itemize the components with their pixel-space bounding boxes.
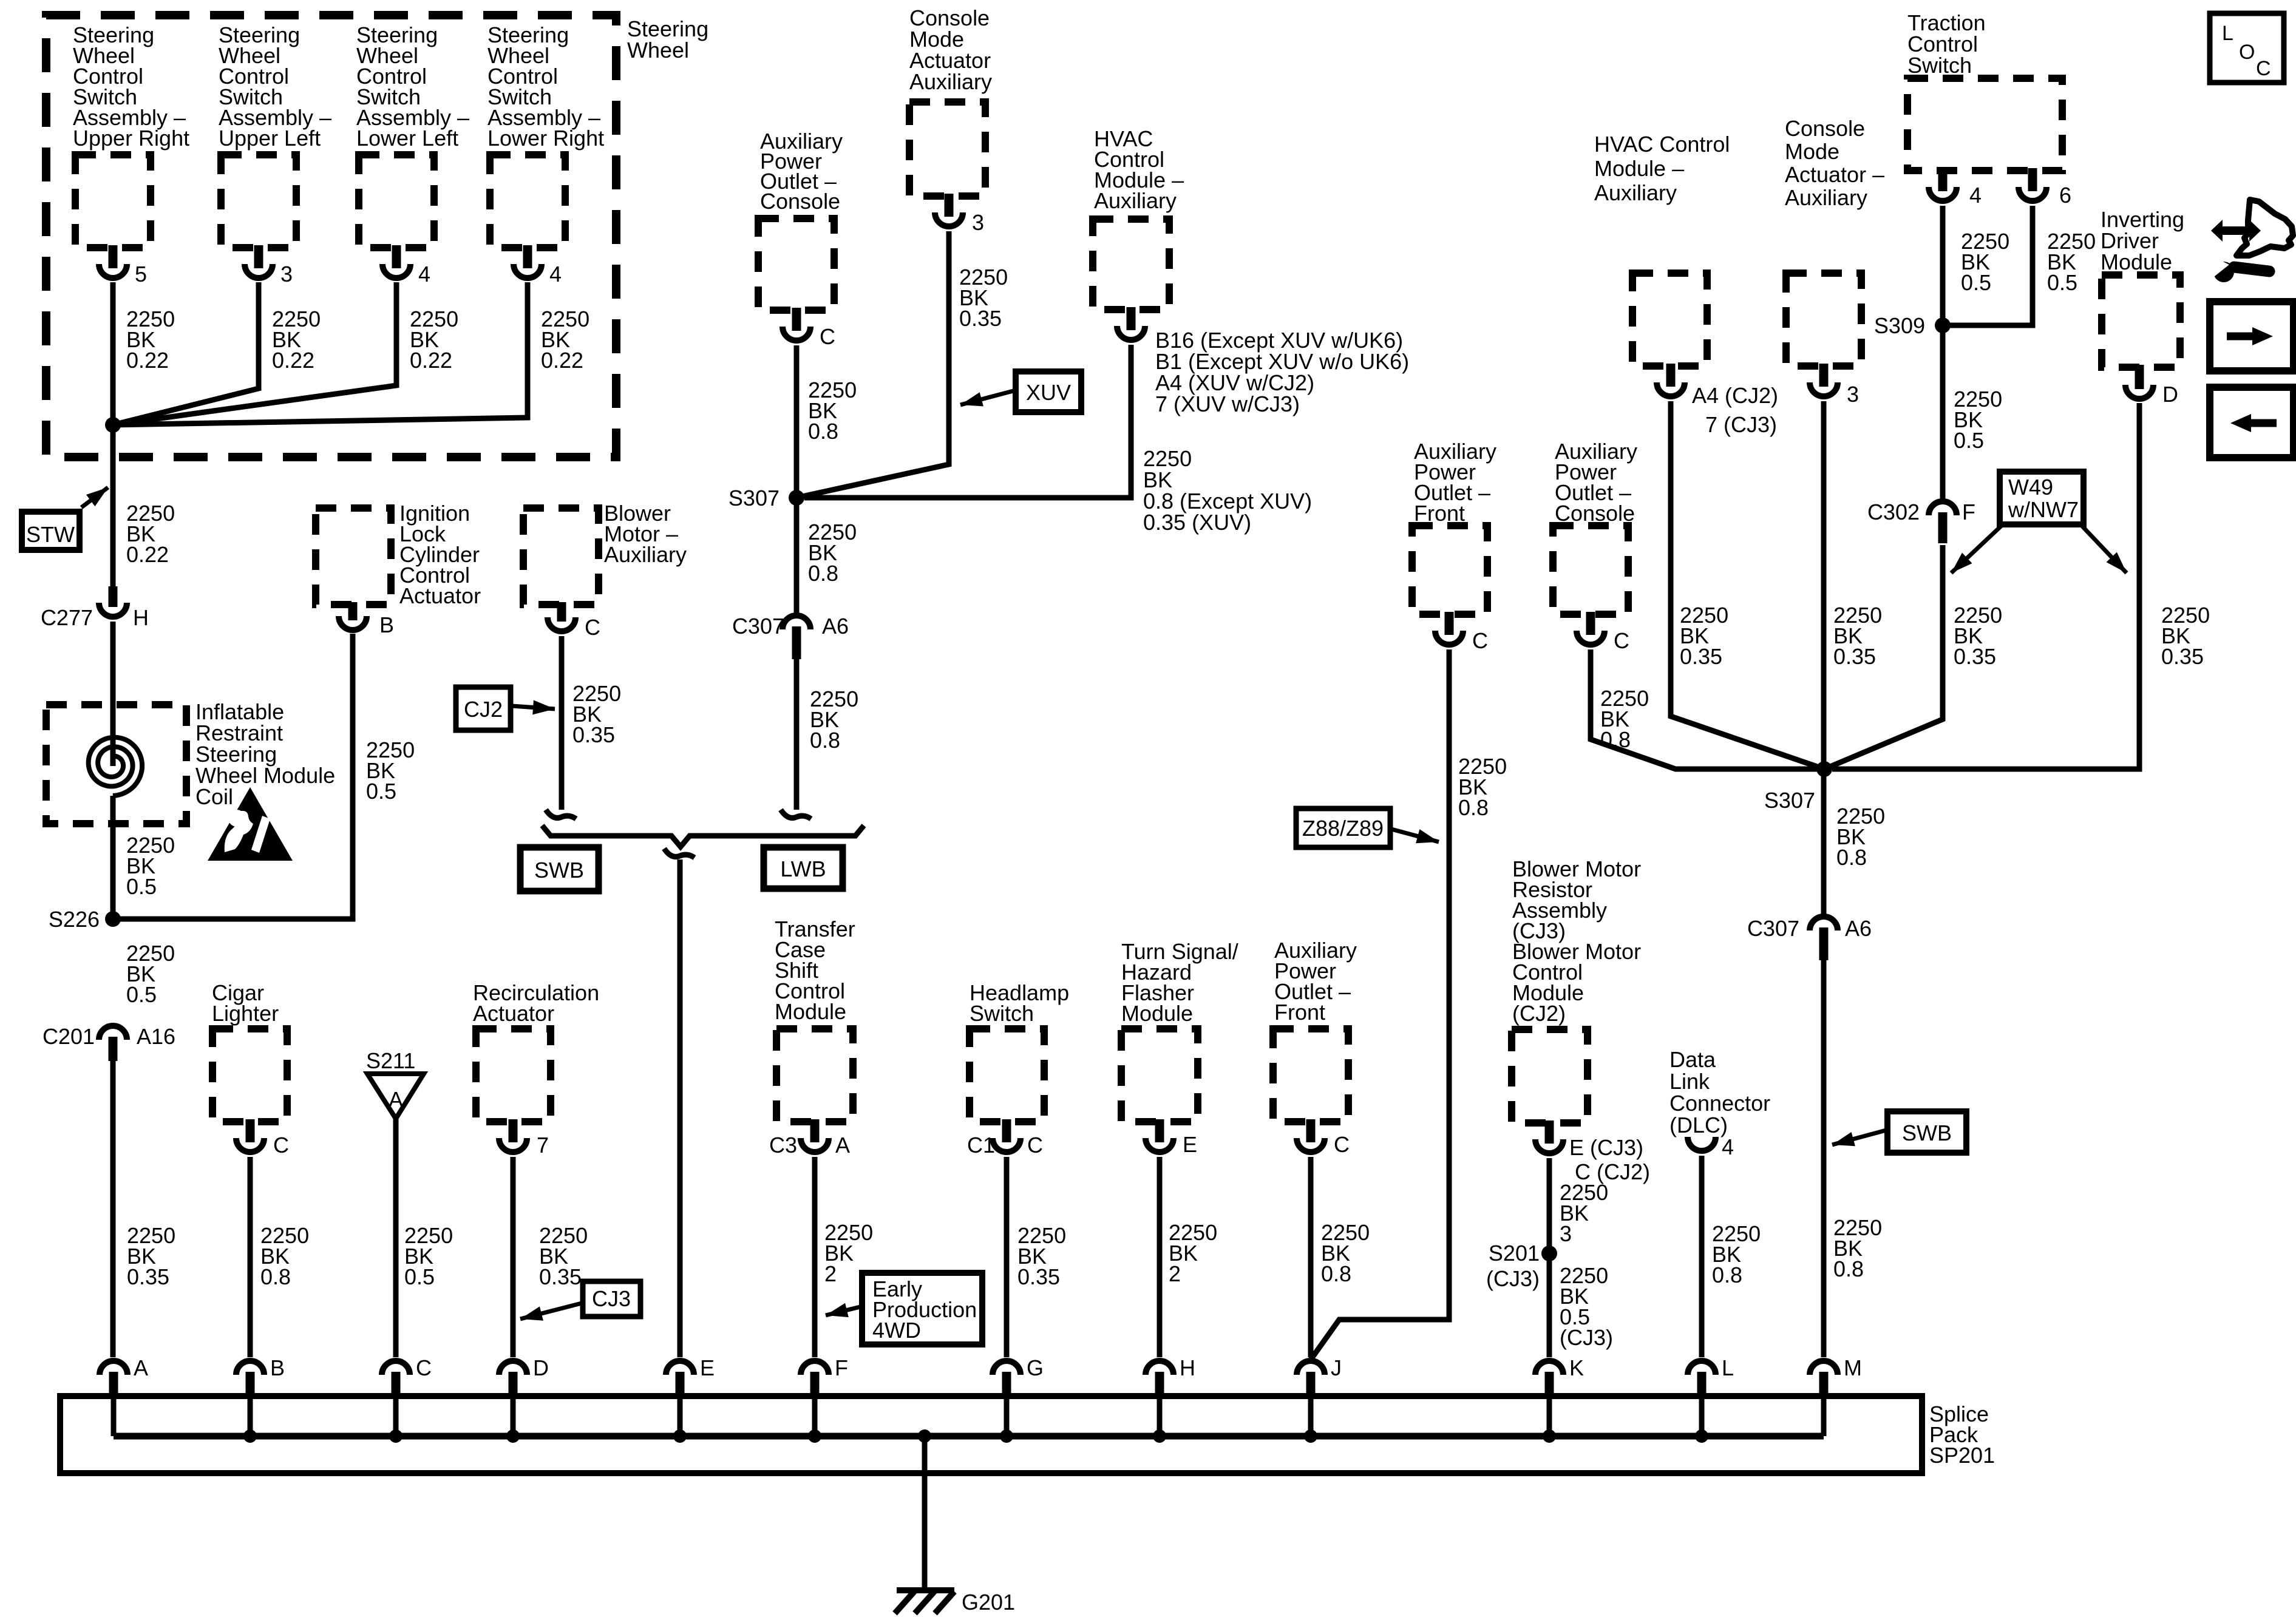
svg-text:0.8: 0.8	[1712, 1263, 1742, 1287]
next page arrow box	[2210, 302, 2294, 371]
bus junction at K	[1543, 1429, 1556, 1443]
label terminal 4	[549, 262, 562, 286]
connector cup terminal 3 of console mode actuator (right)	[1810, 382, 1838, 396]
wire console mode right to S307 right	[1821, 401, 1827, 769]
wire splice terminal B into bus	[248, 1397, 253, 1436]
svg-text:Upper Right: Upper Right	[73, 126, 189, 151]
connector cup terminal C of cigar lighter	[236, 1138, 264, 1152]
connector pin 4 of traction control switch	[1938, 168, 1948, 191]
wire splice terminal D into bus	[511, 1397, 516, 1436]
connector pin A of transfer case module	[810, 1119, 820, 1142]
svg-text:E: E	[1183, 1132, 1197, 1157]
W49 arrow left	[1951, 526, 2002, 573]
svg-text:C: C	[585, 615, 600, 640]
label C201	[42, 1024, 95, 1049]
wire from switch 1 terminal 5 to junction	[110, 282, 116, 425]
wire label 2250 BK 0.8 (wire B)	[260, 1223, 309, 1289]
Early Production arrow	[826, 1303, 863, 1317]
svg-text:6: 6	[2059, 183, 2071, 208]
headlamp switch dashed box	[970, 1029, 1044, 1122]
connector cup terminal 7 of recirculation actuator	[499, 1138, 527, 1152]
svg-text:G: G	[1027, 1355, 1044, 1380]
connector cup terminal C of aux power outlet console	[783, 327, 810, 341]
svg-text:XUV: XUV	[1026, 380, 1071, 405]
XUV arrow	[960, 390, 1016, 406]
svg-text:Module: Module	[775, 999, 846, 1024]
wire S201 to splice K	[1547, 1253, 1552, 1357]
svg-text:S226: S226	[49, 907, 100, 932]
wire label 2250 BK 0.35 (console mode wire)	[959, 265, 1008, 331]
splice S226	[105, 911, 121, 927]
wire traction terminal 6 to S309	[1943, 206, 2033, 325]
svg-text:E (CJ3): E (CJ3)	[1569, 1135, 1643, 1160]
auxiliary power outlet console dashed box (middle)	[758, 219, 834, 310]
wire cigar lighter to splice B	[248, 1157, 253, 1357]
label switch assembly 3 title	[356, 22, 469, 151]
label switch assembly 1 title	[73, 22, 189, 151]
label HVAC Control Module Auxiliary (middle)	[1094, 126, 1184, 213]
label Cigar Lighter	[212, 980, 279, 1026]
steering wheel control switch assembly box 1 (Upper Right)	[75, 155, 151, 248]
connector pin C of aux power outlet console (top right)	[1586, 612, 1595, 635]
connector pin C of blower motor auxiliary	[557, 602, 566, 622]
svg-text:C: C	[820, 324, 835, 349]
svg-text:M: M	[1844, 1355, 1862, 1380]
svg-text:Auxiliary: Auxiliary	[909, 69, 992, 94]
wire console mode actuator to S307	[796, 231, 949, 498]
splice pack terminal A (pin)	[109, 1372, 118, 1397]
splice pack terminal B (pin)	[246, 1372, 255, 1397]
connector pin 4 of switch 3	[392, 245, 401, 268]
wire inverting driver module to S307 right	[1832, 403, 2139, 769]
splice pack terminal F (pin)	[810, 1372, 820, 1397]
svg-text:Data: Data	[1669, 1047, 1716, 1072]
label terminal 4 (traction)	[1969, 183, 1982, 208]
previous page arrow box	[2210, 387, 2294, 458]
hook at end of LWB wire	[781, 810, 811, 819]
svg-text:A4 (CJ2): A4 (CJ2)	[1692, 383, 1778, 408]
splice pack terminal M (pin)	[1819, 1372, 1829, 1397]
svg-text:Actuator: Actuator	[399, 583, 481, 608]
label Traction Control Switch	[1907, 10, 1986, 78]
wire label 2250 BK 3 (wire K upper)	[1560, 1180, 1608, 1246]
svg-text:0.8: 0.8	[1600, 727, 1631, 752]
label terminal A4 (CJ2)	[1692, 383, 1778, 408]
W49 arrow right	[2082, 526, 2127, 573]
cigar lighter dashed box	[212, 1029, 287, 1122]
svg-text:Front: Front	[1274, 1000, 1325, 1025]
connector cup terminal C of aux power outlet front (top right)	[1435, 631, 1463, 645]
inverting driver module dashed box	[2102, 275, 2180, 367]
connector pin E of blower motor resistor	[1545, 1120, 1554, 1144]
splice pack terminal J (cup)	[1297, 1361, 1325, 1375]
label Console Mode Actuator Auxiliary (right)	[1785, 116, 1884, 210]
svg-text:K: K	[1569, 1355, 1584, 1380]
splice pack terminal G (pin)	[1002, 1372, 1011, 1397]
svg-text:Lighter: Lighter	[212, 1001, 279, 1026]
bus junction at C	[389, 1429, 402, 1443]
svg-text:A: A	[835, 1133, 850, 1158]
console mode actuator auxiliary dashed box (middle)	[909, 102, 985, 196]
label splice terminal B	[270, 1355, 285, 1380]
wire coil to S226	[110, 796, 116, 919]
label Recirculation Actuator	[473, 980, 599, 1026]
svg-text:Switch: Switch	[1907, 53, 1972, 78]
bus junction at B	[243, 1429, 257, 1443]
junction of switch wires	[105, 417, 121, 433]
connector pin D of inverting driver module	[2135, 365, 2144, 389]
splice pack bus wire	[114, 1433, 1824, 1440]
wire label 2250 BK 0.35 (C302 wire)	[1954, 603, 2002, 669]
label Blower Motor Resistor Assembly / Control Module	[1512, 856, 1641, 1026]
wire label 2250 BK 0.35 (wire G)	[1017, 1223, 1066, 1289]
connector pin B16 of HVAC module	[1127, 307, 1136, 330]
wire label 2250 BK 0.35 (HVAC right wire)	[1680, 603, 1728, 669]
wire label 2250 BK 0.8 (S307 to C307)	[808, 520, 857, 586]
label Auxiliary Power Outlet Front (top right)	[1414, 439, 1496, 526]
svg-text:0.8: 0.8	[1458, 795, 1489, 820]
svg-text:L: L	[1722, 1355, 1734, 1380]
wire label 2250 BK 0.8 (wire J)	[1321, 1220, 1370, 1286]
wiring harness brace	[542, 825, 864, 847]
label A6 (right)	[1845, 916, 1872, 941]
label terminal 7 (CJ3)	[1705, 412, 1777, 437]
connector cup terminal C of aux power outlet console (top right)	[1577, 631, 1605, 645]
svg-text:LWB: LWB	[780, 856, 826, 881]
wire label 2250 BK 0.22 (switch 3)	[410, 307, 458, 373]
label S201 (CJ3)	[1486, 1241, 1540, 1291]
svg-text:C: C	[1334, 1132, 1350, 1157]
connector pin 7 of recirculation actuator	[509, 1119, 518, 1142]
bus junction at F	[808, 1429, 821, 1443]
wire label 2250 BK 0.35 (inverting wire)	[2161, 603, 2210, 669]
svg-text:Lower Left: Lower Left	[356, 126, 458, 151]
svg-text:C307: C307	[732, 614, 784, 639]
wire label 2250 BK 0.35 (blower motor wire)	[572, 681, 621, 747]
svg-text:C: C	[1027, 1133, 1043, 1158]
svg-text:B: B	[379, 612, 394, 637]
svg-text:L: L	[2222, 22, 2233, 45]
wire aux front (top) to splice J with jog	[1311, 649, 1449, 1360]
label splice terminal D	[533, 1355, 549, 1380]
label Console Mode Actuator Auxiliary (middle)	[909, 5, 992, 94]
label terminal C (cigar lighter)	[273, 1133, 289, 1158]
label splice terminal C	[416, 1355, 432, 1380]
wire S307 right to C307 right	[1821, 769, 1827, 915]
wire transfer case to splice F	[812, 1157, 818, 1357]
HVAC control module auxiliary dashed box (right)	[1632, 273, 1707, 366]
splice pack terminal E (cup)	[666, 1361, 694, 1375]
label Auxiliary Power Outlet Console (middle)	[760, 129, 843, 214]
label Inverting Driver Module	[2101, 207, 2184, 274]
svg-text:0.35: 0.35	[959, 306, 1002, 331]
label S211	[366, 1048, 415, 1073]
wire splice terminal C into bus	[393, 1397, 399, 1436]
svg-text:C: C	[1614, 628, 1629, 653]
svg-text:0.8: 0.8	[810, 728, 840, 753]
STW callout box	[22, 512, 80, 550]
wire splice terminal E into bus	[678, 1397, 683, 1436]
splice pack terminal F (cup)	[801, 1361, 829, 1375]
svg-text:0.35: 0.35	[1017, 1264, 1060, 1289]
connector C307 pin (right)	[1819, 927, 1829, 960]
splice pack terminal C (cup)	[382, 1361, 410, 1375]
label Transfer Case Shift Control Module	[775, 917, 855, 1024]
wire HVAC right to S307 right	[1671, 401, 1824, 769]
wire label 2250 BK 0.22 (switch 2)	[272, 307, 321, 373]
splice S307 (right)	[1816, 761, 1832, 777]
connector pin A4 of HVAC module (right)	[1666, 364, 1676, 387]
bus junction at J	[1304, 1429, 1317, 1443]
svg-text:C: C	[273, 1133, 289, 1158]
svg-text:0.5: 0.5	[1954, 428, 1984, 453]
svg-text:S307: S307	[729, 486, 779, 510]
wire splice terminal A into bus	[111, 1397, 117, 1436]
svg-text:H: H	[133, 605, 149, 630]
label H	[133, 605, 149, 630]
svg-text:C277: C277	[41, 605, 93, 630]
splice pack terminal D (pin)	[509, 1372, 518, 1397]
wire blower resistor to S201	[1547, 1158, 1552, 1253]
splice pack SP201 outer box	[60, 1396, 1922, 1473]
svg-text:(CJ3): (CJ3)	[1486, 1266, 1540, 1291]
connector cup terminal 4 of traction control switch	[1929, 187, 1957, 201]
connector C201 pin (pin)	[109, 1037, 118, 1061]
svg-text:7 (XUV w/CJ3): 7 (XUV w/CJ3)	[1155, 392, 1300, 416]
svg-text:Auxiliary: Auxiliary	[1594, 180, 1677, 205]
svg-text:HVAC Control: HVAC Control	[1594, 132, 1730, 157]
svg-text:Module: Module	[2101, 249, 2172, 274]
label terminal 5	[135, 262, 147, 286]
label C1	[967, 1133, 995, 1158]
svg-text:7: 7	[537, 1133, 549, 1158]
svg-text:C1: C1	[967, 1133, 995, 1158]
svg-text:0.22: 0.22	[126, 348, 169, 373]
coil spiral symbol	[89, 737, 142, 796]
connector pin 6 of traction control switch	[2028, 168, 2037, 191]
svg-text:0.22: 0.22	[541, 348, 583, 373]
splice pack terminal L (pin)	[1697, 1372, 1707, 1397]
svg-text:0.5: 0.5	[1961, 270, 1991, 295]
svg-text:4: 4	[418, 262, 430, 286]
wire S307 to C307	[794, 498, 800, 614]
ignition lock cylinder control actuator dashed box	[316, 508, 391, 605]
Z88/Z89 arrow	[1391, 829, 1439, 843]
svg-text:0.8: 0.8	[260, 1264, 291, 1289]
svg-text:4: 4	[1722, 1134, 1734, 1159]
connector cup terminal 3 of switch 2	[245, 264, 273, 278]
connector C307 terminal A6 (cup, middle)	[783, 615, 810, 629]
svg-text:(DLC): (DLC)	[1669, 1113, 1728, 1137]
svg-text:7 (CJ3): 7 (CJ3)	[1705, 412, 1777, 437]
svg-text:Wheel: Wheel	[627, 38, 689, 63]
label splice terminal L	[1722, 1355, 1734, 1380]
steering wheel control switch assembly box 2 (Upper Left)	[221, 155, 296, 248]
splice pack terminal G (cup)	[993, 1361, 1021, 1375]
svg-text:0.22: 0.22	[272, 348, 314, 373]
splice pack terminal E (pin)	[676, 1372, 685, 1397]
wire label 2250 BK 0.5 (wire C)	[404, 1223, 453, 1289]
wire C307 right to splice M	[1821, 960, 1827, 1357]
svg-text:C: C	[416, 1355, 432, 1380]
wire label 2250 BK 0.5 (traction 4)	[1961, 229, 2009, 295]
label Inflatable Restraint Steering Wheel Module Coil	[195, 699, 335, 809]
wire label 2250 BK 0.35 (console right wire)	[1833, 603, 1882, 669]
wire S309 to C302	[1940, 325, 1946, 499]
svg-text:0.8: 0.8	[1836, 845, 1867, 870]
svg-text:0.5: 0.5	[126, 874, 157, 899]
svg-text:0.5: 0.5	[2047, 270, 2077, 295]
svg-text:C307: C307	[1747, 916, 1799, 941]
svg-text:B: B	[270, 1355, 285, 1380]
wire C201 to splice A	[110, 1061, 116, 1357]
bus junction at G	[1000, 1429, 1013, 1443]
auxiliary power outlet console dashed box (top right)	[1553, 526, 1628, 614]
inflatable restraint steering wheel module coil dashed box	[46, 705, 186, 824]
label splice terminal F	[835, 1355, 848, 1380]
wire traction terminal 4 to S309	[1940, 206, 1946, 325]
svg-text:S211: S211	[366, 1048, 415, 1073]
svg-text:4WD: 4WD	[872, 1318, 921, 1343]
transfer case shift control module dashed box	[776, 1029, 853, 1122]
wire label 2250 BK 0.8 (Z88 wire)	[1458, 754, 1507, 820]
connector cup terminal E of flasher module	[1146, 1138, 1173, 1152]
svg-text:w/NW7: w/NW7	[2008, 497, 2079, 522]
connector pin 3 of console mode actuator	[945, 194, 954, 217]
blower motor auxiliary dashed box	[523, 508, 599, 605]
svg-text:0.22: 0.22	[410, 348, 452, 373]
svg-text:0.22: 0.22	[126, 542, 169, 567]
W49 w/NW7 callout box	[2000, 472, 2084, 524]
bus junction for ground	[918, 1429, 931, 1443]
wire from switch 3 terminal 4 to junction	[113, 282, 396, 425]
svg-text:2: 2	[1169, 1261, 1181, 1286]
splice pack terminal C (pin)	[392, 1372, 401, 1397]
wire splice terminal M into bus	[1821, 1397, 1827, 1436]
label G201	[962, 1590, 1015, 1615]
svg-text:Switch: Switch	[970, 1001, 1034, 1026]
svg-text:Lower Right: Lower Right	[487, 126, 604, 151]
label terminal A (transfer case)	[835, 1133, 850, 1158]
wire C302 to S307 right	[1824, 545, 1943, 769]
svg-text:F: F	[1962, 500, 1975, 524]
label terminal 3 (console right)	[1847, 382, 1859, 407]
svg-text:F: F	[835, 1355, 848, 1380]
connector pin C of aux power outlet console	[792, 308, 801, 331]
svg-text:O: O	[2239, 41, 2255, 64]
connector cup terminal D of inverting driver module	[2125, 385, 2153, 399]
label terminal C (aux front bottom)	[1334, 1132, 1350, 1157]
svg-text:4: 4	[549, 262, 562, 286]
wire brace to splice E	[678, 859, 683, 1357]
connector cup terminal 4 of switch 3	[382, 264, 410, 278]
label splice terminal G	[1027, 1355, 1044, 1380]
svg-text:H: H	[1180, 1355, 1195, 1380]
auxiliary power outlet front dashed box (bottom)	[1273, 1029, 1348, 1122]
svg-text:5: 5	[135, 262, 147, 286]
connector cup terminal B of ignition lock	[339, 616, 367, 630]
wire aux outlet console to S307	[794, 345, 800, 498]
XUV callout box	[1016, 371, 1081, 412]
wire label 2250 BK 0.5 (S309 to C302)	[1954, 387, 2002, 453]
wire label 2250 BK 0.35 (wire A)	[127, 1223, 175, 1289]
svg-text:(CJ2): (CJ2)	[1512, 1001, 1566, 1026]
hand with wrench icon	[2208, 200, 2293, 282]
svg-text:0.35: 0.35	[539, 1264, 582, 1289]
svg-text:C: C	[1472, 628, 1488, 653]
wire recirculation actuator to splice D	[511, 1157, 516, 1357]
svg-text:A6: A6	[822, 614, 849, 639]
svg-text:Connector: Connector	[1669, 1091, 1770, 1116]
connector C201 terminal A16 (cup)	[99, 1026, 127, 1040]
connector cup terminal B16 of HVAC module	[1117, 326, 1145, 340]
splice pack terminal M (cup)	[1810, 1361, 1838, 1375]
steering wheel assembly outer dashed box	[46, 15, 616, 457]
svg-text:Auxiliary: Auxiliary	[1785, 185, 1867, 210]
svg-text:Actuator –: Actuator –	[1785, 162, 1884, 187]
wire label 2250 BK 0.8 (aux console to S307)	[808, 378, 857, 444]
svg-text:0.35: 0.35	[1833, 644, 1876, 669]
svg-text:0.8: 0.8	[808, 419, 838, 444]
label terminal C (aux front top)	[1472, 628, 1488, 653]
LWB callout box	[764, 847, 843, 889]
SWB right arrow	[1832, 1130, 1886, 1146]
label terminal 7	[537, 1133, 549, 1158]
svg-text:3: 3	[1847, 382, 1859, 407]
splice S201	[1541, 1246, 1557, 1261]
splice pack terminal H (pin)	[1155, 1372, 1164, 1397]
svg-text:Mode: Mode	[1785, 139, 1839, 164]
svg-text:Module: Module	[1121, 1001, 1193, 1026]
STW arrow	[81, 487, 108, 507]
label splice terminal H	[1180, 1355, 1195, 1380]
connector pin 3 of switch 2	[254, 245, 263, 268]
splice S211 triangle symbol	[367, 1074, 424, 1119]
label terminal 6 (traction)	[2059, 183, 2071, 208]
wire label 2250 BK 0.22 (switch 1)	[126, 307, 175, 373]
label Steering Wheel (outer box title)	[627, 16, 708, 63]
SWB callout box	[520, 847, 599, 891]
wire aux console (top right) to S307 right	[1591, 649, 1824, 769]
recirculation actuator dashed box	[476, 1029, 551, 1122]
label Data Link Connector (DLC)	[1669, 1047, 1770, 1137]
HVAC control module auxiliary dashed box (middle)	[1093, 219, 1169, 310]
label HVAC Control Module Auxiliary (right)	[1594, 132, 1730, 205]
splice pack terminal B (cup)	[236, 1361, 264, 1375]
label Auxiliary Power Outlet Console (top right)	[1555, 439, 1637, 526]
label terminal C (aux outlet console)	[820, 324, 835, 349]
connector pin C of aux power outlet front (top right)	[1445, 612, 1454, 635]
CJ2 arrow	[512, 700, 555, 715]
svg-text:3: 3	[1560, 1221, 1572, 1246]
connector C302 pin	[1938, 512, 1948, 543]
bus junction at H	[1153, 1429, 1166, 1443]
svg-text:0.35 (XUV): 0.35 (XUV)	[1143, 510, 1251, 535]
svg-text:0.35: 0.35	[2161, 644, 2204, 669]
steering wheel control switch assembly box 4 (Lower Right)	[490, 155, 565, 248]
wire label 2250 BK 0.22 (switch 4)	[541, 307, 589, 373]
splice pack terminal H (cup)	[1146, 1361, 1173, 1375]
svg-text:SWB: SWB	[1902, 1120, 1952, 1145]
label splice terminal E	[700, 1355, 715, 1380]
traction control switch dashed box	[1907, 78, 2062, 171]
wire DLC to splice L	[1699, 1156, 1705, 1357]
svg-text:0.8: 0.8	[1833, 1256, 1864, 1281]
label terminal B	[379, 612, 394, 637]
label terminal 4 (DLC)	[1722, 1134, 1734, 1159]
label C302	[1867, 500, 1920, 524]
svg-text:3: 3	[280, 262, 293, 286]
